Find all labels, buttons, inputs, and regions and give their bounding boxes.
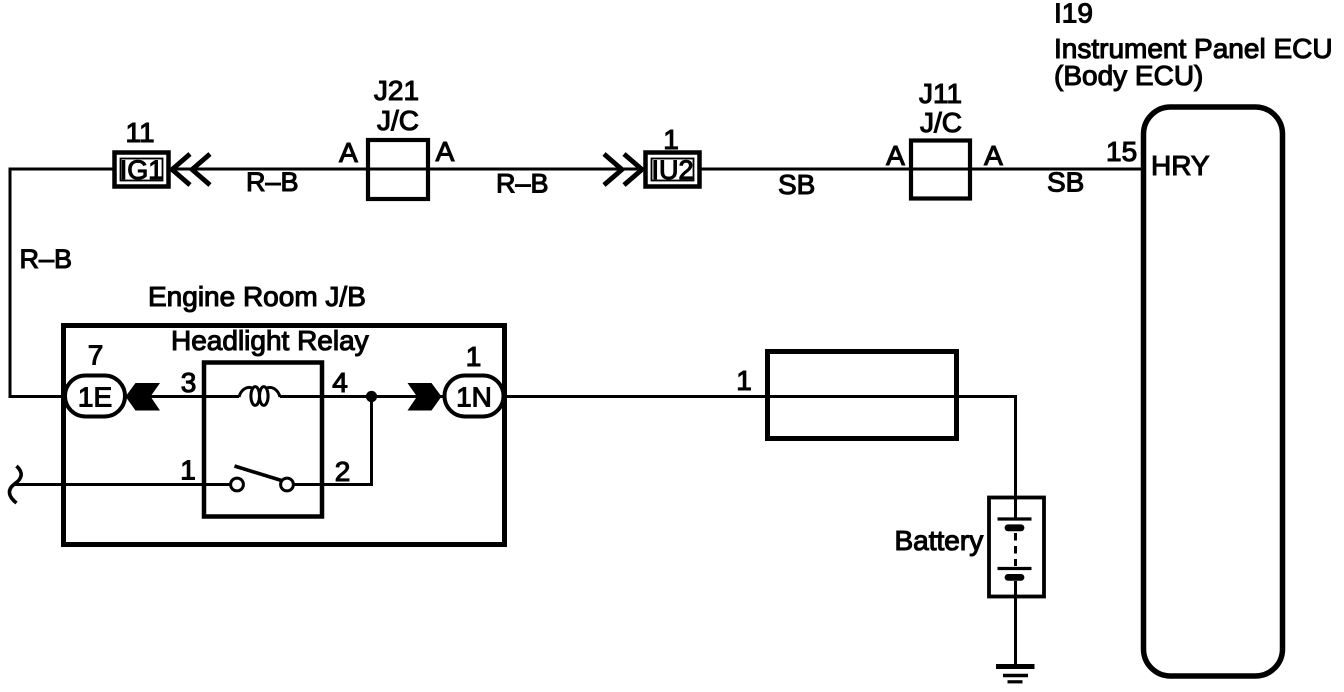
svg-text:R–B: R–B xyxy=(20,244,73,274)
relay switch contact right xyxy=(281,478,294,491)
pin A left of J21 xyxy=(339,137,358,168)
svg-text:3: 3 xyxy=(181,367,197,398)
svg-text:A: A xyxy=(886,140,905,171)
wire label R-B (second segment) xyxy=(496,169,549,199)
wire: battery to ground xyxy=(1014,581,1017,665)
pin number 11 above IG1 xyxy=(125,117,154,148)
label Engine Room J/B xyxy=(148,281,366,312)
terminal oval 1N xyxy=(445,376,504,417)
pin number 1 above IU2 xyxy=(663,124,679,155)
svg-text:IG1: IG1 xyxy=(120,155,164,185)
svg-text:J/C: J/C xyxy=(377,105,419,136)
wire label R-B (first segment) xyxy=(246,167,299,197)
svg-text:J/C: J/C xyxy=(920,107,962,138)
label Battery xyxy=(895,525,984,556)
battery cells xyxy=(998,497,1032,577)
svg-text:1: 1 xyxy=(736,365,752,396)
wire: relay coil row from 1E to 1N xyxy=(125,395,443,398)
wire: from 1N through fusible link box to battery corner xyxy=(503,397,1016,498)
svg-text:A: A xyxy=(436,136,455,167)
pin A left of J11 xyxy=(886,140,905,171)
svg-text:R–B: R–B xyxy=(496,169,549,199)
fusible link box xyxy=(768,352,957,439)
svg-text:Engine Room J/B: Engine Room J/B xyxy=(148,281,366,312)
svg-text:HRY: HRY xyxy=(1151,150,1210,181)
svg-text:R–B: R–B xyxy=(246,167,299,197)
label J11 xyxy=(919,78,962,109)
svg-text:1: 1 xyxy=(180,455,196,486)
label Headlight Relay xyxy=(171,325,369,356)
label (Body ECU) xyxy=(1054,60,1203,91)
svg-text:J21: J21 xyxy=(374,75,419,106)
wire: left vertical R-B drop from top run to 1E xyxy=(10,168,64,397)
pin number 1 (relay switch left) xyxy=(180,455,196,486)
pin number 1 at fusible link xyxy=(736,365,752,396)
junction connector J11 box xyxy=(911,141,970,199)
relay switch contact left xyxy=(231,478,244,491)
svg-text:15: 15 xyxy=(1106,136,1137,167)
svg-text:2: 2 xyxy=(335,456,351,487)
svg-text:IU2: IU2 xyxy=(651,155,693,185)
battery box xyxy=(989,498,1044,597)
svg-text:1: 1 xyxy=(466,341,482,372)
wire label SB (first segment) xyxy=(778,169,815,200)
label J/C (J21) xyxy=(377,105,419,136)
svg-text:Headlight Relay: Headlight Relay xyxy=(171,325,369,356)
wire label SB (second segment) xyxy=(1047,167,1084,198)
pin A right of J21 xyxy=(436,136,455,167)
svg-text:A: A xyxy=(339,137,358,168)
svg-text:A: A xyxy=(984,140,1003,171)
svg-text:J11: J11 xyxy=(919,78,962,109)
connector IG1 (pin 11) xyxy=(115,153,169,187)
relay box xyxy=(204,363,322,517)
junction connector J21 box xyxy=(368,140,428,199)
svg-text:SB: SB xyxy=(778,169,815,200)
svg-text:Battery: Battery xyxy=(895,525,984,556)
pin name HRY xyxy=(1151,150,1210,181)
male arrow (solid, pointing right) at 1N xyxy=(408,383,442,411)
svg-text:11: 11 xyxy=(125,117,154,148)
label I19 xyxy=(1054,0,1093,29)
ECU I19 body outline xyxy=(1144,107,1283,676)
pin number 2 (relay switch right) xyxy=(335,456,351,487)
svg-text:7: 7 xyxy=(88,340,104,371)
ground symbol xyxy=(996,667,1035,682)
svg-text:I19: I19 xyxy=(1054,0,1093,29)
wire break squiggle at switch feed xyxy=(9,466,21,503)
svg-text:1: 1 xyxy=(663,124,679,155)
connector IU2 (pin 1) xyxy=(646,153,700,187)
svg-text:4: 4 xyxy=(332,367,348,398)
Engine Room J/B box xyxy=(64,326,505,545)
label J/C (J11) xyxy=(920,107,962,138)
wire: top horizontal R-B/SB run from left corner to ECU pin 15 xyxy=(10,168,1141,171)
pin A right of J11 xyxy=(984,140,1003,171)
relay switch blade xyxy=(235,466,282,481)
wire label R-B (vertical drop) xyxy=(20,244,73,274)
wire: from contact 2 up to junction dot xyxy=(294,397,372,485)
label Instrument Panel ECU xyxy=(1054,33,1333,64)
label J21 xyxy=(374,75,419,106)
junction dot node xyxy=(366,391,377,402)
pin number 4 (relay coil right) xyxy=(332,367,348,398)
pin number 3 (relay coil left) xyxy=(181,367,197,398)
male connector chevrons << after IG1 xyxy=(172,154,210,185)
pin number 7 above 1E xyxy=(88,340,104,371)
male connector chevrons >> before IU2 xyxy=(604,154,642,185)
wire: switch row from squiggle to relay contact xyxy=(15,483,231,486)
svg-text:1E: 1E xyxy=(78,382,112,413)
svg-text:1N: 1N xyxy=(456,382,492,413)
female arrow (solid, pointing left) at 1E xyxy=(126,383,161,411)
svg-text:(Body ECU): (Body ECU) xyxy=(1054,60,1203,91)
pin number 15 at ECU xyxy=(1106,136,1137,167)
relay coil xyxy=(239,387,280,406)
svg-text:SB: SB xyxy=(1047,167,1084,198)
terminal oval 1E xyxy=(65,376,125,417)
pin number 1 above 1N xyxy=(466,341,482,372)
